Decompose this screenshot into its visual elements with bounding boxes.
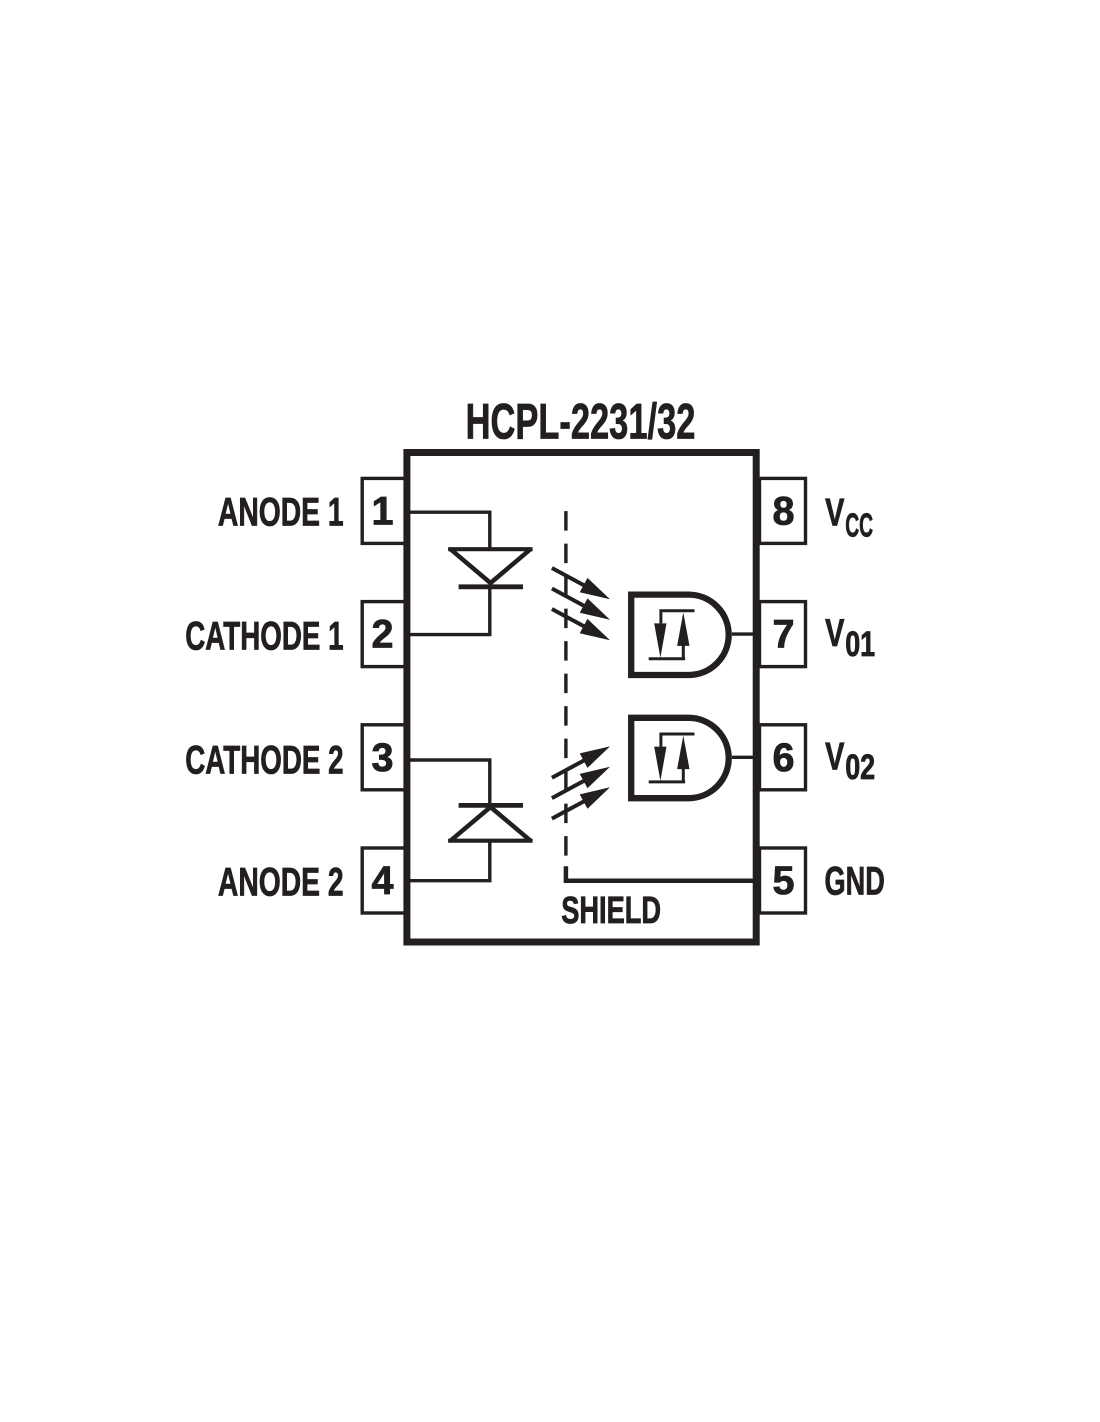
svg-text:7: 7 [772, 613, 794, 657]
svg-text:2: 2 [371, 613, 393, 657]
svg-text:4: 4 [371, 859, 393, 903]
svg-text:SHIELD: SHIELD [561, 890, 661, 932]
svg-text:CATHODE 2: CATHODE 2 [185, 737, 343, 782]
svg-text:8: 8 [772, 489, 794, 533]
svg-text:HCPL-2231/32: HCPL-2231/32 [466, 393, 696, 449]
svg-text:ANODE 1: ANODE 1 [218, 489, 344, 534]
svg-text:CATHODE 1: CATHODE 1 [185, 613, 343, 658]
svg-text:01: 01 [845, 625, 875, 664]
svg-text:6: 6 [772, 736, 794, 780]
svg-text:ANODE 2: ANODE 2 [218, 860, 344, 905]
svg-text:V: V [825, 735, 844, 778]
svg-text:3: 3 [371, 736, 393, 780]
svg-text:V: V [825, 612, 844, 655]
svg-text:5: 5 [772, 859, 794, 903]
svg-text:GND: GND [825, 859, 885, 904]
svg-text:V: V [825, 491, 844, 534]
svg-text:CC: CC [845, 507, 873, 544]
svg-text:02: 02 [845, 748, 875, 787]
svg-text:1: 1 [371, 489, 393, 533]
